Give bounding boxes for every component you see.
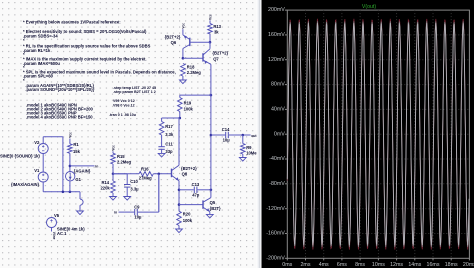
wire R9 to ground: [242, 154, 244, 158]
wire Vcc stub to R15: [112, 151, 114, 153]
wire Q5 collector up to rail: [210, 190, 212, 198]
wire right riser down to bus: [62, 137, 64, 192]
svg-text:-200mV: -200mV: [266, 255, 285, 261]
resistor R1: [68, 144, 73, 154]
svg-text:R19: R19: [184, 100, 192, 105]
svg-text:20ms: 20ms: [463, 262, 474, 268]
svg-text:R18: R18: [187, 64, 195, 69]
pane divider: [257, 0, 261, 268]
svg-text:18ms: 18ms: [445, 262, 458, 268]
resistor R18: [181, 64, 186, 77]
junction emitter/C13: [178, 189, 181, 192]
svg-text:-40mV: -40mV: [269, 156, 285, 162]
svg-text:8ms: 8ms: [355, 262, 365, 268]
resistor R17: [159, 122, 164, 136]
wire Q6 collector down: [182, 49, 184, 59]
svg-text:.model 4 akoBC559C PNP BF=150: .model 4 akoBC559C PNP BF=150: [26, 115, 93, 120]
svg-text:160mV: 160mV: [268, 32, 285, 38]
svg-text:220k: 220k: [101, 186, 111, 191]
junction emitter/Q5 base wire: [178, 203, 181, 206]
svg-text:0ms: 0ms: [282, 262, 292, 268]
svg-text:100k: 100k: [184, 107, 194, 112]
wire C11 to ground: [161, 149, 163, 153]
wire C10 to ground: [126, 187, 128, 196]
ground below C10: [124, 197, 131, 201]
capacitor C14: [225, 132, 227, 138]
svg-text:27Meg: 27Meg: [139, 175, 152, 180]
svg-text:V98 0 Vee 12: V98 0 Vee 12: [113, 103, 135, 107]
wire R18 to ground: [182, 76, 184, 80]
wire R15 to bias node: [112, 164, 114, 174]
wire R9 top stub: [242, 135, 244, 144]
wire R17 top stub: [161, 118, 163, 122]
wire R19 top stub: [179, 95, 181, 97]
svg-text:Vcc: Vcc: [68, 132, 72, 138]
waveform pane background: [262, 0, 474, 268]
svg-text:in: in: [95, 165, 98, 169]
wire emitter node to C13: [179, 189, 194, 191]
wire Q5 emitter to ground: [209, 212, 211, 215]
svg-text:6ms: 6ms: [337, 262, 347, 268]
x axis tick marks: [287, 258, 469, 260]
wire bottom bus: [43, 191, 80, 193]
svg-text:C14: C14: [222, 127, 230, 132]
waveform trace V(out) red step amp 186mV: [287, 19, 469, 250]
svg-text:-160mV: -160mV: [266, 231, 285, 237]
svg-text:40mV: 40mV: [271, 107, 285, 113]
svg-text:V1: V1: [34, 168, 40, 173]
svg-text:2ms: 2ms: [300, 262, 310, 268]
svg-text:10µ: 10µ: [223, 138, 231, 143]
junction G1/bus: [69, 191, 72, 194]
wire G1 bottom to bus: [69, 181, 71, 192]
wire rail to C14: [211, 134, 225, 136]
resistor R19: [178, 98, 183, 112]
transistor Q6 PNP (mirrored): [189, 38, 191, 46]
svg-text:.param SDBS=-34: .param SDBS=-34: [23, 34, 58, 39]
svg-text:.step param B2T LIST 1 2: .step param B2T LIST 1 2: [113, 90, 156, 94]
svg-text:{B2T+2}: {B2T+2}: [212, 50, 228, 55]
svg-text:R14: R14: [102, 180, 110, 185]
svg-text:V5: V5: [54, 213, 60, 218]
svg-text:15k: 15k: [73, 149, 81, 154]
ground below R9: [239, 158, 246, 162]
junction electret output node: [69, 165, 72, 168]
current source G1: [66, 172, 75, 181]
transistor Q8 NPN: [171, 169, 173, 178]
wire hook to ground: [79, 205, 81, 211]
svg-text:V(out): V(out): [362, 4, 376, 10]
svg-text:120mV: 120mV: [268, 57, 285, 63]
svg-text:out: out: [251, 134, 257, 138]
svg-text:10µ: 10µ: [134, 214, 142, 219]
svg-text:3k: 3k: [214, 29, 219, 34]
svg-text:-120mV: -120mV: [266, 206, 285, 212]
svg-text:200mV: 200mV: [268, 7, 285, 13]
wire C14 to out node: [229, 134, 251, 136]
svg-text:R15: R15: [117, 154, 125, 159]
wire C10 top stub: [126, 174, 128, 184]
wire R17 to C11: [161, 135, 163, 147]
svg-text:in: in: [114, 211, 117, 215]
wire Q8 emitter rail down: [178, 181, 180, 211]
svg-text:{B2T}: {B2T}: [210, 206, 221, 211]
svg-text:C10: C10: [130, 179, 138, 184]
wire junction to Q7 base: [183, 57, 203, 59]
plot grid horizontal dotted lines: [287, 35, 469, 234]
svg-text:AC 1: AC 1: [57, 231, 67, 236]
ground below R20: [176, 229, 183, 233]
svg-text:.param IMAX=500u: .param IMAX=500u: [23, 61, 60, 66]
junction R19 wire / out rail: [210, 94, 213, 97]
svg-text:Q7: Q7: [213, 56, 219, 61]
junction bias node: [112, 173, 115, 176]
svg-text:* Everything below assumes 1V/: * Everything below assumes 1V/Pascal ref…: [23, 20, 121, 25]
wire node to in flag: [70, 165, 95, 167]
ground below hook: [77, 211, 84, 215]
plot border: [287, 10, 469, 258]
wire Q7 emitter rail down (out rail): [210, 64, 212, 190]
svg-text:C11: C11: [165, 141, 173, 146]
wire Q5 base horizontal: [179, 204, 203, 206]
svg-text:{B2T+2}: {B2T+2}: [181, 166, 197, 171]
wire bias node to C10: [113, 173, 127, 175]
junction out node / R9: [242, 134, 245, 137]
svg-text:4ms: 4ms: [319, 262, 329, 268]
wire R14 to ground: [112, 193, 114, 197]
svg-text:47p: 47p: [192, 192, 200, 197]
wire R1 to G1: [69, 153, 71, 171]
svg-text:R17: R17: [165, 124, 173, 129]
transistor Q5 NPN: [202, 200, 204, 208]
capacitor C11: [158, 146, 164, 148]
wire C9 to riser: [138, 211, 159, 213]
junction out rail / C14: [210, 134, 213, 137]
junction riser/bus: [62, 191, 65, 194]
svg-text:Vcc: Vcc: [209, 14, 213, 20]
voltage source V1: [38, 172, 48, 182]
capacitor C13: [193, 187, 195, 193]
voltage source V5: [47, 218, 57, 228]
svg-text:R20: R20: [183, 212, 191, 217]
wire R16 to base node: [153, 173, 171, 175]
y axis labels: [266, 7, 285, 261]
svg-text:Q8: Q8: [182, 171, 188, 176]
svg-text:0mV: 0mV: [274, 131, 285, 137]
svg-text:Q6: Q6: [171, 40, 177, 45]
wire top horizontal: [43, 136, 63, 138]
junction C9 riser / base wire: [158, 173, 161, 176]
wire V1 bottom to bus: [42, 182, 44, 192]
wire R19 top horizontal: [180, 94, 211, 96]
hook element (half-circle): [80, 199, 83, 205]
ground below R18: [180, 80, 187, 84]
svg-text:16ms: 16ms: [427, 262, 440, 268]
svg-text:-80mV: -80mV: [269, 181, 285, 187]
wire V5 bottom stub: [51, 228, 53, 232]
svg-text:R13: R13: [213, 24, 221, 29]
svg-text:33p: 33p: [165, 149, 173, 154]
svg-text:Vcc: Vcc: [112, 145, 116, 151]
svg-text:3.3µ: 3.3µ: [130, 186, 139, 191]
svg-text:V2: V2: [34, 140, 40, 145]
capacitor C10: [124, 184, 130, 186]
wire bias node down to R14: [112, 174, 114, 181]
svg-text:14ms: 14ms: [408, 262, 421, 268]
svg-text:10ms: 10ms: [372, 262, 385, 268]
svg-text:SINE(0 {SOUND} 1k): SINE(0 {SOUND} 1k): [0, 154, 40, 159]
svg-text:.param SPL=60: .param SPL=60: [23, 74, 54, 79]
svg-text:3.3k: 3.3k: [165, 132, 174, 137]
wire Vcc rail to Q6 emitter: [182, 29, 184, 35]
wire Vcc stub to R1: [69, 139, 71, 144]
junction Q6 collector / Q7 base / R18: [182, 57, 185, 60]
wire R19 node down to Q8 collector: [178, 118, 180, 165]
svg-text:2.2Meg: 2.2Meg: [187, 70, 202, 75]
svg-text:{B2T+2}: {B2T+2}: [165, 34, 181, 39]
svg-text:{IMAX/AGAIN}: {IMAX/AGAIN}: [11, 182, 39, 187]
svg-text:R16: R16: [141, 166, 149, 171]
waveform trace V(out) gray step2 amp 182mV: [287, 21, 469, 247]
wire C9 riser up to base node: [158, 174, 160, 212]
capacitor C9: [134, 209, 136, 215]
wire R19 bottom to node: [179, 112, 181, 119]
resistor R20: [177, 211, 182, 225]
plot grid vertical dotted lines: [306, 10, 452, 258]
wire bus corner down: [79, 192, 81, 199]
transistor Q7 PNP: [202, 53, 204, 61]
wire in to C9: [119, 211, 135, 213]
junction C13 / out rail: [210, 189, 213, 192]
svg-text:80mV: 80mV: [271, 82, 285, 88]
svg-text:Vline: Vline: [52, 232, 56, 240]
resistor R14: [111, 181, 116, 193]
wire Vcc stub to R13: [209, 20, 211, 23]
svg-text:Vcc: Vcc: [181, 23, 185, 29]
svg-text:100k: 100k: [183, 218, 193, 223]
resistor R16 (horizontal): [139, 172, 153, 177]
resistor R13: [208, 24, 213, 35]
waveform trace V(out) gray step3 amp 179mV: [287, 23, 469, 245]
wire bias node to R16: [113, 173, 139, 175]
resistor R15: [111, 153, 116, 164]
svg-text:.param SOUND={20u*10**{SPL/20}: .param SOUND={20u*10**{SPL/20}}: [25, 87, 94, 92]
wire Q6 base to junction: [190, 41, 210, 43]
schematic pane background: [0, 0, 257, 268]
svg-text:.tran 0 1 .98 10u: .tran 0 1 .98 10u: [109, 113, 136, 117]
ground below C11: [158, 153, 165, 157]
wire V2 to V1: [42, 154, 44, 173]
wire V2 top up: [42, 137, 44, 144]
wire node left to R17 column: [162, 117, 180, 119]
wire Q7 collector up to junction: [209, 42, 211, 49]
wire C13 to out rail: [197, 189, 211, 191]
y axis tick marks: [285, 10, 287, 258]
wire R20 to ground: [178, 226, 180, 230]
svg-text:.param RL=1k: .param RL=1k: [23, 48, 51, 53]
svg-text:2.2Meg: 2.2Meg: [117, 159, 132, 164]
svg-text:C9: C9: [134, 205, 140, 210]
svg-text:12ms: 12ms: [390, 262, 403, 268]
wire R13 bottom to junction: [209, 34, 211, 42]
junction R13/Q6 base/Q7 collector: [209, 41, 212, 44]
ground below Q5: [206, 214, 213, 218]
resistor R9: [241, 144, 246, 155]
voltage source V2: [38, 144, 48, 154]
svg-text:Q5: Q5: [210, 200, 216, 205]
svg-text:R1: R1: [73, 142, 79, 147]
svg-text:G1: G1: [75, 177, 81, 182]
svg-text:{AGAIN}: {AGAIN}: [74, 169, 91, 174]
svg-text:C13: C13: [192, 182, 200, 187]
junction R19 bottom node: [179, 117, 182, 120]
ground below R14: [110, 197, 117, 201]
svg-text:R9: R9: [246, 145, 252, 150]
x axis labels: [282, 262, 474, 268]
